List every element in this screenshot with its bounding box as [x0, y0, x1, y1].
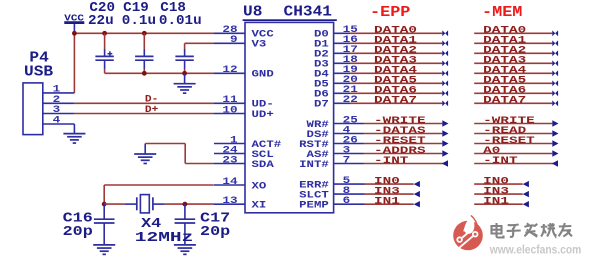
- svg-text:22u: 22u: [88, 14, 114, 29]
- wire EPP IN0: [365, 177, 420, 188]
- svg-text:0.01u: 0.01u: [159, 14, 202, 29]
- label X4: [141, 216, 161, 232]
- wire EPP IN1: [365, 197, 420, 208]
- ground below C18: [174, 73, 196, 93]
- pin 21 D6 stub: [314, 85, 358, 101]
- svg-text:20p: 20p: [63, 224, 93, 240]
- ground below C17: [174, 245, 196, 254]
- svg-text:12MHz: 12MHz: [135, 230, 194, 246]
- value 20p C16: [63, 224, 93, 240]
- wire EPP DATA5: [350, 76, 448, 87]
- wire EPP -RESET: [364, 136, 449, 147]
- label C19: [123, 1, 149, 16]
- pin 28 VCC stub: [214, 25, 274, 41]
- svg-text:CH341: CH341: [284, 4, 333, 21]
- value 20p C17: [200, 224, 230, 240]
- svg-text:INT#: INT#: [299, 160, 329, 171]
- label CH341: [284, 4, 333, 21]
- svg-text:V3: V3: [252, 40, 267, 51]
- pin 26 RST# stub: [299, 135, 363, 151]
- connector P4 body: [23, 83, 43, 135]
- U8 underline: [243, 19, 337, 21]
- pin 19 D4 stub: [314, 65, 358, 81]
- watermark logo: [453, 215, 483, 250]
- wire EPP DATA0: [350, 26, 448, 37]
- wire MEM -INT: [474, 156, 558, 167]
- ground below P4: [63, 134, 85, 143]
- pin 20 D5 stub: [314, 75, 358, 91]
- pin 6 PEMP stub: [299, 196, 364, 212]
- svg-text:0.1u: 0.1u: [122, 14, 156, 29]
- wire MEM DATA3: [474, 56, 558, 67]
- svg-text:USB: USB: [24, 63, 53, 80]
- label D+: [145, 105, 158, 116]
- wire MEM DATA4: [474, 66, 558, 77]
- wire MEM -WRITE: [474, 116, 558, 127]
- svg-text:22: 22: [343, 95, 358, 106]
- wire D+ net: [74, 113, 214, 115]
- wire EPP DATA4: [350, 66, 448, 77]
- svg-text:4: 4: [53, 116, 61, 127]
- capacitor C18: [175, 43, 193, 73]
- label -EPP header: [370, 4, 410, 21]
- value 0.01u: [159, 14, 202, 29]
- label USB: [24, 63, 53, 80]
- pin 1 ACT# stub: [214, 135, 281, 151]
- wire EPP -WRITE: [364, 116, 449, 127]
- svg-text:-MEM: -MEM: [482, 4, 522, 21]
- pin 24 SCL stub: [214, 145, 274, 161]
- pin 25 WR# stub: [307, 115, 364, 131]
- wire V3 pin9: [185, 42, 214, 44]
- wire EPP -INT: [364, 156, 449, 167]
- power symbol VCC: [64, 13, 84, 33]
- svg-text:14: 14: [222, 177, 237, 188]
- svg-text:www.elecfans.com: www.elecfans.com: [489, 245, 581, 257]
- wire MEM DATA6: [474, 86, 558, 97]
- wire EPP DATA6: [350, 86, 448, 97]
- pin 10 UD+ stub: [214, 105, 274, 121]
- label C20: [89, 1, 115, 16]
- svg-text:-INT: -INT: [483, 156, 517, 167]
- svg-text:3: 3: [53, 105, 61, 116]
- wire EPP -DATAS: [364, 126, 449, 137]
- wire MEM IN3: [474, 187, 529, 198]
- junction C19 bottom: [142, 71, 147, 76]
- pin 1 of P4: [43, 85, 75, 96]
- wire GND rail: [105, 72, 214, 74]
- wire MEM DATA5: [474, 76, 558, 87]
- ground below C16: [93, 245, 115, 254]
- wire ground to SDA: [145, 144, 214, 164]
- capacitor C17: [175, 204, 196, 245]
- pin 18 D3 stub: [314, 55, 358, 71]
- pin 3 of P4: [43, 105, 75, 116]
- pin 8 SLCT stub: [299, 186, 364, 202]
- pin 17 D2 stub: [314, 45, 358, 61]
- svg-text:23: 23: [222, 155, 237, 166]
- pin 7 INT# stub: [299, 155, 363, 171]
- wire MEM -READ: [474, 126, 558, 137]
- wire EPP DATA2: [350, 46, 448, 57]
- pin 11 UD- stub: [214, 95, 274, 111]
- watermark url: [489, 245, 581, 257]
- junction C16 top: [102, 202, 107, 207]
- label D-: [145, 94, 158, 105]
- svg-text:10: 10: [222, 105, 237, 116]
- pin 9 V3 stub: [214, 35, 266, 51]
- wire EPP DATA3: [350, 56, 448, 67]
- capacitor C19: [135, 33, 153, 73]
- pin 12 GND stub: [214, 65, 274, 81]
- IC U8 body: [245, 22, 334, 212]
- svg-text:9: 9: [230, 35, 238, 46]
- svg-text:IN1: IN1: [483, 197, 509, 208]
- svg-text:PEMP: PEMP: [299, 201, 329, 212]
- pin 4 of P4: [43, 116, 75, 127]
- svg-text:SDA: SDA: [252, 160, 274, 171]
- junction C17 top: [183, 202, 188, 207]
- svg-text:6: 6: [343, 196, 351, 207]
- wire MEM IN1: [474, 197, 529, 208]
- pin 3 AS# stub: [307, 145, 364, 161]
- pin 23 SDA stub: [214, 155, 274, 171]
- wire MEM DATA7: [474, 96, 558, 107]
- svg-text:GND: GND: [252, 70, 274, 81]
- pin 4 DS# stub: [307, 125, 364, 141]
- svg-text:IN1: IN1: [374, 197, 400, 208]
- junction C20 top: [102, 31, 107, 36]
- wire EPP IN3: [365, 187, 420, 198]
- junction C18 bottom: [182, 71, 187, 76]
- value 0.1u: [122, 14, 156, 29]
- svg-text:DATA7: DATA7: [374, 96, 417, 107]
- label C18: [160, 1, 186, 16]
- label U8: [243, 4, 262, 21]
- junction C19 top: [142, 31, 147, 36]
- wire EPP -ADDRS: [364, 146, 449, 157]
- label -MEM header: [482, 4, 522, 21]
- svg-text:7: 7: [343, 155, 351, 166]
- svg-text:20p: 20p: [200, 224, 230, 240]
- pin 14 XO stub: [214, 177, 266, 193]
- wire MEM DATA2: [474, 46, 558, 57]
- svg-text:XO: XO: [252, 181, 267, 192]
- label C16: [63, 211, 93, 227]
- wire XO net: [104, 185, 214, 204]
- svg-text:-EPP: -EPP: [370, 4, 410, 21]
- value 22u: [88, 14, 114, 29]
- svg-text:D-: D-: [145, 94, 158, 105]
- svg-text:1: 1: [53, 85, 61, 96]
- capacitor C20: [95, 33, 113, 73]
- label P4: [29, 49, 48, 66]
- svg-text:13: 13: [222, 196, 237, 207]
- pin 2 of P4: [43, 95, 75, 106]
- wire MEM -RESET: [474, 136, 558, 147]
- svg-text:-INT: -INT: [374, 156, 408, 167]
- wire EPP DATA7: [350, 96, 448, 107]
- pin 22 D7 stub: [314, 95, 358, 111]
- svg-text:XI: XI: [252, 201, 267, 212]
- wire MEM IN0: [474, 177, 529, 188]
- capacitor C16: [94, 204, 115, 245]
- svg-text:UD+: UD+: [252, 110, 274, 121]
- pin 13 XI stub: [214, 196, 266, 212]
- wire EPP DATA1: [350, 36, 448, 47]
- wire XTAL left: [104, 203, 124, 205]
- junction VCC drop: [72, 31, 77, 36]
- svg-text:D7: D7: [314, 100, 329, 111]
- svg-text:DATA7: DATA7: [483, 96, 526, 107]
- pin 15 D0 stub: [314, 25, 358, 41]
- label C17: [200, 211, 230, 227]
- crystal X4: [125, 195, 165, 213]
- svg-text:D+: D+: [145, 105, 158, 116]
- wire MEM DATA0: [474, 26, 558, 37]
- ground at SDA net: [134, 144, 156, 164]
- watermark text dianzifashaoyou: [492, 223, 573, 238]
- wire XTAL right to XI: [165, 203, 214, 205]
- wire P4 pin4 to ground: [73, 124, 75, 134]
- pin 16 D1 stub: [314, 35, 358, 51]
- value 12MHz: [135, 230, 194, 246]
- svg-text:U8: U8: [243, 4, 262, 21]
- wire VCC rail: [74, 32, 214, 34]
- pin 5 ERR# stub: [299, 176, 364, 192]
- wire MEM A0: [474, 146, 558, 157]
- svg-text:12: 12: [222, 65, 237, 76]
- wire D- net: [74, 102, 214, 104]
- wire MEM DATA1: [474, 36, 558, 47]
- wire VCC to P4 pin1: [73, 33, 75, 93]
